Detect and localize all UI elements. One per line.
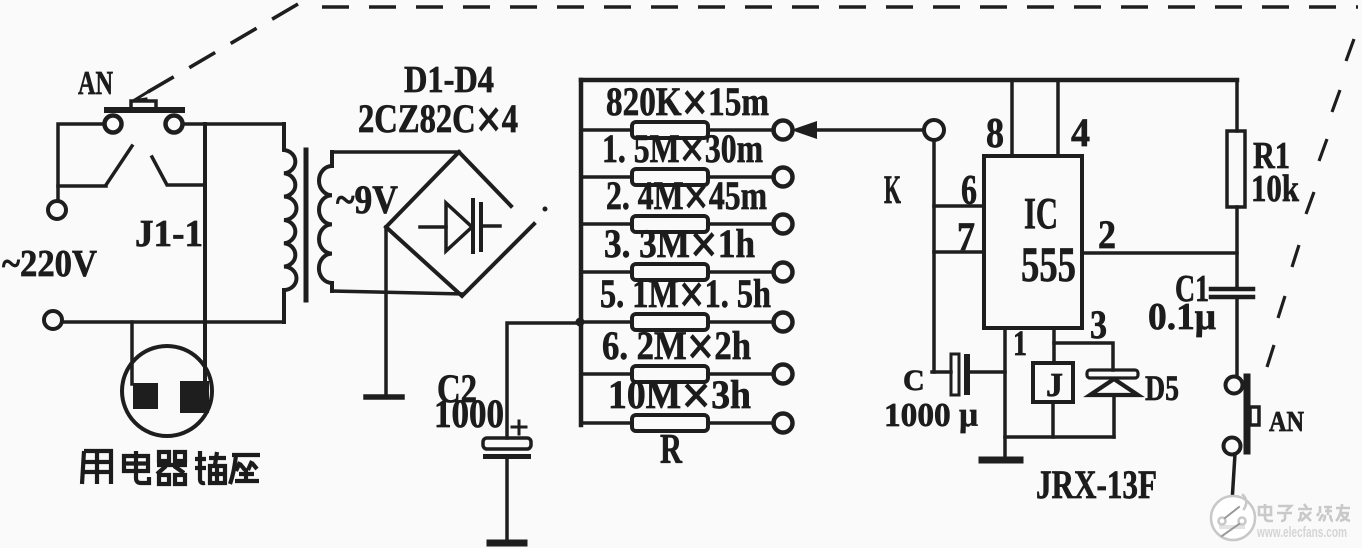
wire AC neutral to transformer primary bottom	[62, 320, 284, 324]
svg-text:1: 1	[1013, 323, 1027, 363]
resistor R 10M leads	[583, 421, 774, 425]
wire K wiper down to timing node	[932, 140, 936, 372]
resistor R 1.5M leads	[583, 175, 774, 179]
wire pin 3 to D5	[1054, 343, 1113, 370]
bridge inner diode cathode lead	[481, 224, 500, 228]
rotary tap terminal circle (R 5.1M)	[774, 313, 793, 332]
capacitor C2 bottom plate	[483, 454, 531, 459]
ground bar (C2)	[490, 540, 524, 547]
wire pin 7	[934, 250, 984, 254]
socket pin left	[133, 383, 158, 409]
watermark glyph 发	[1298, 504, 1312, 521]
wiper terminal circle K	[924, 120, 944, 140]
capacitor C plate left (boxed)	[951, 354, 959, 395]
svg-text:D5: D5	[1145, 368, 1179, 408]
rotary tap terminal circle (R 820K)	[774, 121, 793, 140]
resistor R 820K body	[632, 122, 708, 138]
svg-text:2CZ82C×4: 2CZ82C×4	[358, 89, 518, 151]
rotary tap terminal circle (R 10M)	[774, 414, 793, 433]
wire AC top terminal stub	[56, 186, 60, 200]
AC input terminal top	[48, 201, 66, 219]
rotary tap terminal circle (R 1.5M)	[774, 168, 793, 187]
capacitor C lead right	[970, 370, 1005, 374]
capacitor C plate right	[964, 354, 970, 395]
transformer core	[304, 150, 309, 300]
resistor R 6.2M leads	[583, 372, 774, 376]
svg-text:2: 2	[1098, 212, 1116, 257]
push button AN (right) cap	[1250, 407, 1259, 425]
terminal circle right of button AN	[166, 116, 183, 133]
wire AN down	[1232, 454, 1235, 502]
wire bridge negative to ground	[384, 227, 388, 396]
resistor R 820K leads	[583, 128, 774, 132]
watermark text 电子发烧友	[1259, 504, 1350, 521]
svg-text:IC: IC	[1024, 189, 1058, 238]
resistor R 2.4M body	[632, 216, 708, 232]
wire pin 8	[1010, 80, 1014, 156]
wire C2 to ground	[505, 459, 509, 540]
wire D5 bottom	[1112, 395, 1116, 437]
push button AN bar	[104, 107, 185, 113]
svg-text:10M×3h: 10M×3h	[608, 365, 751, 427]
Vcc bus vertical (R ladder)	[579, 80, 584, 425]
resistor R 5.1M body	[632, 314, 708, 330]
socket pin right	[180, 381, 209, 413]
push button AN (right) actuator	[1244, 377, 1251, 451]
stray dot near bridge output	[543, 207, 548, 212]
transformer T primary winding	[284, 124, 297, 322]
capacitor C1 plates	[1211, 289, 1253, 297]
svg-text:JRX-13F: JRX-13F	[1036, 462, 1157, 507]
terminal circle left of button AN	[105, 116, 122, 133]
bridge inner diode anode line	[420, 225, 446, 229]
svg-text:1. 5M×30m: 1. 5M×30m	[602, 119, 763, 181]
glyph 器	[159, 452, 185, 461]
resistor R 2.4M leads	[583, 222, 774, 226]
svg-text:1000 μ: 1000 μ	[884, 397, 978, 434]
wire Vcc tap to C2	[507, 323, 581, 438]
wire relay J bottom	[1051, 402, 1055, 437]
glyph 电	[124, 456, 148, 471]
svg-text:C: C	[903, 364, 925, 397]
svg-text:1000: 1000	[434, 391, 504, 436]
terminal circle top of AN (right)	[1226, 377, 1243, 394]
svg-text:R: R	[660, 427, 682, 473]
switch blade left (relay contact J1-1)	[106, 146, 132, 185]
diode D5 cathode bar	[1087, 370, 1138, 378]
arrowhead of dashed pointer	[133, 90, 151, 101]
dashed photo-crop border top	[322, 5, 1358, 8]
resistor R1 body	[1227, 131, 1245, 207]
switch blade right (relay contact J1-1)	[152, 157, 205, 185]
capacitor C2 plus sign	[512, 421, 526, 434]
terminal circle bottom of AN (right)	[1224, 438, 1241, 455]
svg-text:6: 6	[961, 168, 977, 214]
svg-text:J: J	[1046, 367, 1063, 404]
svg-text:8: 8	[986, 111, 1004, 157]
dashed diagonal pointer to AN button	[146, 4, 298, 93]
svg-text:K: K	[884, 167, 901, 212]
rotary tap terminal circle (R 6.2M)	[774, 365, 793, 384]
wire secondary top to bridge	[332, 150, 459, 154]
svg-text:AN: AN	[78, 65, 113, 102]
transformer secondary winding	[319, 152, 332, 291]
svg-text:~220V: ~220V	[2, 243, 98, 285]
resistor R 3.3M leads	[583, 270, 774, 274]
wire left contact to AC input	[58, 124, 106, 186]
svg-text:10k: 10k	[1251, 168, 1300, 210]
svg-text:7: 7	[957, 214, 975, 259]
ground bar (bridge)	[366, 394, 402, 400]
resistor R 10M body	[632, 415, 708, 431]
watermark logo circle	[1211, 495, 1255, 540]
wire secondary bottom to bridge	[332, 291, 462, 294]
wire switched live down to socket	[203, 124, 207, 382]
wire relay/diode common to pin1 ground rail	[1005, 435, 1114, 439]
watermark glyph 友	[1336, 504, 1350, 521]
svg-text:0.1μ: 0.1μ	[1148, 296, 1216, 338]
resistor R 5.1M leads	[583, 320, 774, 324]
wire socket left pin	[130, 322, 134, 384]
svg-text:3: 3	[1090, 302, 1107, 347]
rotary tap terminal circle (R 2.4M)	[774, 215, 793, 234]
svg-text:6. 2M×2h: 6. 2M×2h	[602, 316, 751, 378]
capacitor C2 top plate	[483, 438, 531, 449]
resistor R 6.2M body	[632, 366, 708, 382]
ground bar (pin 1)	[982, 457, 1020, 464]
glyph 用	[82, 451, 111, 484]
bridge inner diode triangle	[446, 203, 472, 251]
Vcc bus top horizontal	[581, 78, 1237, 83]
wire pin 4	[1056, 80, 1060, 156]
label 用电器插座 (appliance socket)	[82, 451, 260, 484]
capacitor C lead left	[932, 370, 951, 374]
svg-text:AN: AN	[1269, 407, 1304, 438]
resistor R 3.3M body	[632, 264, 708, 280]
wire pin 1 to ground	[1003, 328, 1007, 458]
watermark glyph 烧	[1317, 506, 1333, 521]
watermark glyph 电	[1259, 504, 1273, 521]
svg-text:www.elecfans.com: www.elecfans.com	[1256, 524, 1347, 541]
wire bus to R1	[1235, 80, 1239, 131]
op-amp IC 555 box	[984, 156, 1082, 328]
svg-text:~9V: ~9V	[336, 177, 398, 222]
relay coil J box	[1033, 363, 1073, 402]
socket circle (appliance outlet)	[122, 346, 212, 436]
svg-text:4: 4	[1071, 110, 1090, 155]
wire right contact to transformer primary	[183, 122, 284, 126]
svg-text:555: 555	[1021, 236, 1076, 292]
bridge inner diode cathode bars	[473, 200, 481, 252]
wire pin 6	[934, 204, 984, 208]
rotary tap terminal circle (R 3.3M)	[774, 263, 793, 282]
bridge rectifier D1-D4 diamond	[386, 152, 534, 296]
rotary wiper arrow K	[814, 128, 923, 132]
diode D5 triangle	[1090, 379, 1138, 395]
dashed photo-crop border right	[1267, 39, 1354, 367]
glyph 座	[230, 455, 260, 484]
push button AN cap	[131, 101, 156, 108]
resistor R 1.5M body	[632, 169, 708, 185]
glyph 插	[195, 451, 206, 483]
svg-text:J1-1: J1-1	[135, 213, 203, 255]
svg-text:5. 1M×1. 5h: 5. 1M×1. 5h	[600, 264, 771, 326]
wire pin 3	[1052, 328, 1056, 363]
watermark glyph 子	[1277, 506, 1292, 521]
AC input terminal bottom	[44, 311, 62, 329]
wire C1 to AN button	[1235, 297, 1239, 376]
wire pin 2	[1082, 251, 1237, 255]
junction dot C2 tap	[576, 318, 585, 327]
wire R1 to pin2 node	[1235, 207, 1239, 287]
